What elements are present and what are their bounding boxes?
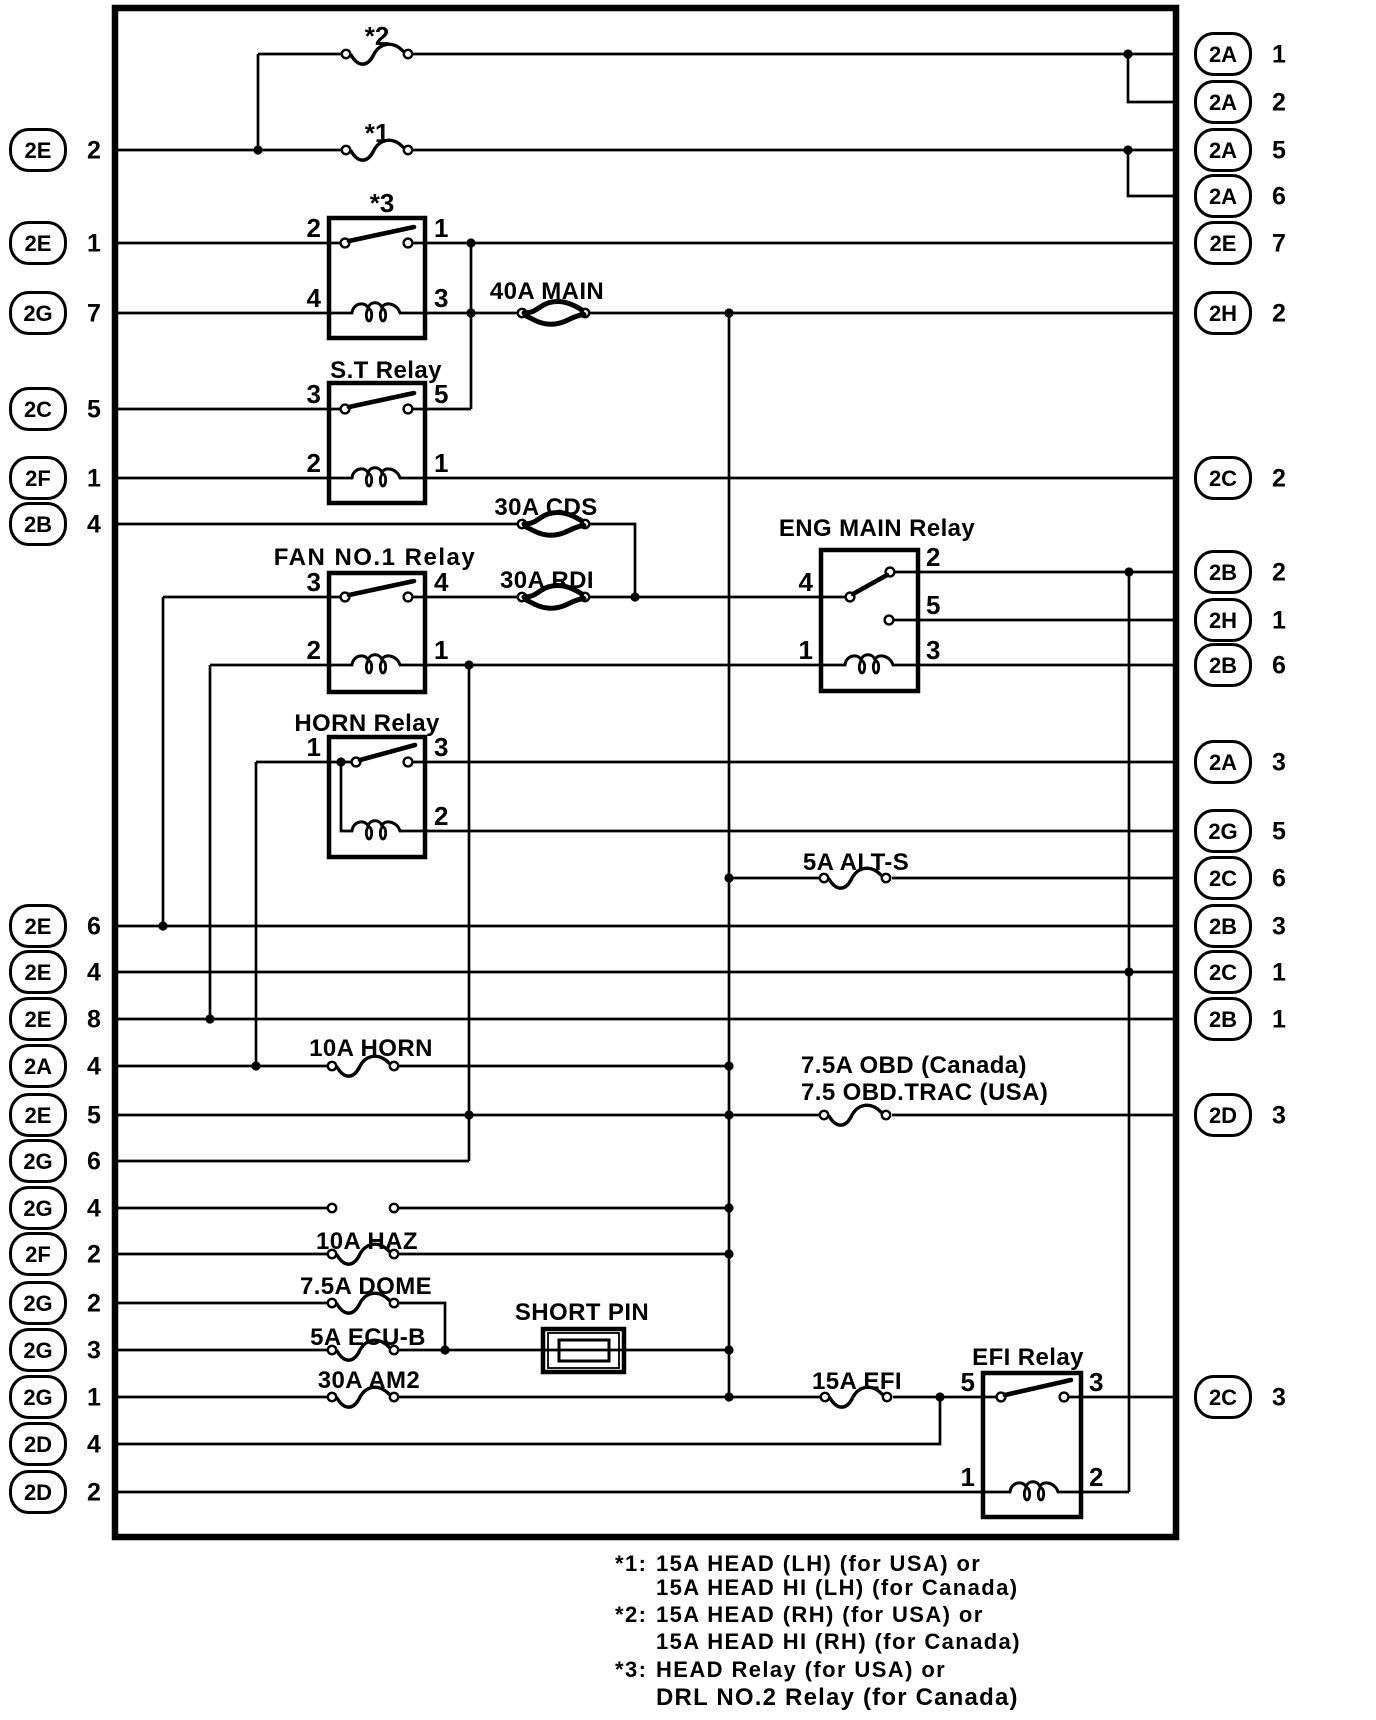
svg-text:2E: 2E <box>25 138 52 163</box>
svg-text:2E: 2E <box>25 914 52 939</box>
svg-text:1: 1 <box>87 230 101 258</box>
svg-text:3: 3 <box>1272 1384 1286 1412</box>
svg-text:2G: 2G <box>23 1338 52 1363</box>
svg-text:6: 6 <box>1272 183 1286 211</box>
svg-text:*2:: *2: <box>615 1602 647 1627</box>
svg-text:5: 5 <box>87 396 101 424</box>
svg-text:*1:: *1: <box>615 1551 647 1576</box>
svg-text:6: 6 <box>87 1148 101 1176</box>
svg-text:1: 1 <box>87 465 101 493</box>
svg-text:15A HEAD (LH) (for USA) or: 15A HEAD (LH) (for USA) or <box>656 1551 981 1576</box>
svg-text:30A CDS: 30A CDS <box>494 494 597 521</box>
svg-text:1: 1 <box>87 1384 101 1412</box>
svg-text:6: 6 <box>1272 865 1286 893</box>
svg-text:7.5A OBD (Canada): 7.5A OBD (Canada) <box>801 1052 1027 1079</box>
svg-text:3: 3 <box>307 379 321 409</box>
svg-text:2: 2 <box>87 1290 101 1318</box>
svg-text:5A ALT-S: 5A ALT-S <box>803 849 909 876</box>
svg-text:5: 5 <box>961 1367 975 1397</box>
svg-text:6: 6 <box>1272 652 1286 680</box>
svg-text:10A HORN: 10A HORN <box>309 1035 433 1062</box>
svg-text:2: 2 <box>1272 559 1286 587</box>
svg-text:10A HAZ: 10A HAZ <box>316 1228 418 1255</box>
svg-text:2C: 2C <box>1209 1385 1237 1410</box>
svg-text:1: 1 <box>1272 41 1286 69</box>
svg-text:2A: 2A <box>1209 184 1237 209</box>
svg-text:2: 2 <box>87 1479 101 1507</box>
svg-text:2F: 2F <box>25 1242 51 1267</box>
svg-text:HORN Relay: HORN Relay <box>294 710 440 737</box>
svg-text:2: 2 <box>87 137 101 165</box>
svg-text:2C: 2C <box>1209 866 1237 891</box>
svg-text:30A AM2: 30A AM2 <box>318 1367 420 1394</box>
svg-text:15A HEAD HI (RH) (for Canada): 15A HEAD HI (RH) (for Canada) <box>656 1629 1021 1654</box>
svg-text:2E: 2E <box>25 1103 52 1128</box>
svg-text:4: 4 <box>87 1195 101 1223</box>
svg-text:7: 7 <box>87 300 101 328</box>
svg-text:2G: 2G <box>1208 819 1237 844</box>
svg-text:*3:: *3: <box>615 1657 647 1682</box>
svg-text:EFI Relay: EFI Relay <box>972 1344 1084 1371</box>
svg-text:2E: 2E <box>25 231 52 256</box>
svg-text:2B: 2B <box>1209 653 1237 678</box>
svg-text:2F: 2F <box>25 466 51 491</box>
svg-text:S.T Relay: S.T Relay <box>330 357 442 384</box>
svg-text:2: 2 <box>307 213 321 243</box>
svg-text:2B: 2B <box>1209 914 1237 939</box>
svg-text:1: 1 <box>1272 607 1286 635</box>
svg-text:1: 1 <box>961 1462 975 1492</box>
svg-text:1: 1 <box>799 635 813 665</box>
svg-text:2D: 2D <box>24 1432 52 1457</box>
svg-text:2: 2 <box>87 1241 101 1269</box>
svg-text:2C: 2C <box>1209 466 1237 491</box>
svg-text:40A MAIN: 40A MAIN <box>490 278 604 305</box>
svg-text:5: 5 <box>87 1102 101 1130</box>
svg-text:15A EFI: 15A EFI <box>812 1368 902 1395</box>
svg-text:2: 2 <box>1272 89 1286 117</box>
svg-text:3: 3 <box>87 1337 101 1365</box>
svg-text:7: 7 <box>1272 230 1286 258</box>
svg-text:2H: 2H <box>1209 608 1237 633</box>
svg-text:2: 2 <box>307 635 321 665</box>
svg-text:2: 2 <box>1272 465 1286 493</box>
svg-text:3: 3 <box>1272 1102 1286 1130</box>
svg-text:5: 5 <box>1272 137 1286 165</box>
svg-text:SHORT PIN: SHORT PIN <box>515 1299 649 1326</box>
svg-text:2A: 2A <box>1209 90 1237 115</box>
svg-text:3: 3 <box>307 567 321 597</box>
svg-text:2C: 2C <box>1209 960 1237 985</box>
svg-text:3: 3 <box>1272 913 1286 941</box>
svg-text:2E: 2E <box>1210 231 1237 256</box>
svg-text:3: 3 <box>1272 749 1286 777</box>
svg-text:HEAD Relay (for USA) or: HEAD Relay (for USA) or <box>656 1657 946 1682</box>
svg-text:2D: 2D <box>24 1480 52 1505</box>
svg-text:5: 5 <box>1272 818 1286 846</box>
svg-text:4: 4 <box>87 1431 101 1459</box>
svg-text:2A: 2A <box>1209 750 1237 775</box>
svg-text:FAN NO.1 Relay: FAN NO.1 Relay <box>274 544 476 571</box>
svg-text:15A HEAD HI (LH) (for Canada): 15A HEAD HI (LH) (for Canada) <box>656 1575 1018 1600</box>
svg-text:2D: 2D <box>1209 1103 1237 1128</box>
svg-text:2G: 2G <box>23 1291 52 1316</box>
svg-text:4: 4 <box>434 567 449 597</box>
svg-text:2E: 2E <box>25 1007 52 1032</box>
svg-text:2H: 2H <box>1209 301 1237 326</box>
svg-text:2: 2 <box>307 448 321 478</box>
svg-text:15A HEAD (RH) (for USA) or: 15A HEAD (RH) (for USA) or <box>656 1602 984 1627</box>
svg-text:2: 2 <box>926 542 940 572</box>
svg-text:1: 1 <box>1272 959 1286 987</box>
svg-text:2A: 2A <box>1209 138 1237 163</box>
svg-text:7.5 OBD.TRAC (USA): 7.5 OBD.TRAC (USA) <box>801 1079 1048 1106</box>
svg-text:2: 2 <box>1089 1462 1103 1492</box>
svg-text:4: 4 <box>87 1053 101 1081</box>
svg-text:*2: *2 <box>365 21 390 51</box>
svg-text:2E: 2E <box>25 960 52 985</box>
svg-text:2C: 2C <box>24 397 52 422</box>
svg-text:2G: 2G <box>23 1196 52 1221</box>
svg-text:2B: 2B <box>1209 560 1237 585</box>
svg-text:8: 8 <box>87 1006 101 1034</box>
svg-text:DRL NO.2 Relay (for Canada): DRL NO.2 Relay (for Canada) <box>656 1684 1019 1711</box>
svg-text:2A: 2A <box>1209 42 1237 67</box>
svg-text:5A ECU-B: 5A ECU-B <box>310 1324 426 1351</box>
svg-text:1: 1 <box>434 635 448 665</box>
svg-text:7.5A DOME: 7.5A DOME <box>300 1273 432 1300</box>
svg-text:*3: *3 <box>370 188 395 218</box>
svg-text:2: 2 <box>434 801 448 831</box>
svg-text:1: 1 <box>1272 1006 1286 1034</box>
svg-text:2B: 2B <box>1209 1007 1237 1032</box>
svg-text:2B: 2B <box>24 512 52 537</box>
svg-text:4: 4 <box>799 567 814 597</box>
svg-text:6: 6 <box>87 913 101 941</box>
svg-text:2: 2 <box>1272 300 1286 328</box>
svg-text:2G: 2G <box>23 1149 52 1174</box>
svg-text:2G: 2G <box>23 1385 52 1410</box>
svg-text:4: 4 <box>307 283 322 313</box>
svg-text:3: 3 <box>926 635 940 665</box>
svg-text:30A RDI: 30A RDI <box>500 567 594 594</box>
svg-text:4: 4 <box>87 959 101 987</box>
svg-text:5: 5 <box>926 590 940 620</box>
svg-text:2G: 2G <box>23 301 52 326</box>
svg-text:1: 1 <box>434 448 448 478</box>
svg-text:1: 1 <box>434 213 448 243</box>
svg-text:4: 4 <box>87 511 101 539</box>
svg-text:*1: *1 <box>365 118 390 148</box>
svg-text:ENG MAIN Relay: ENG MAIN Relay <box>779 515 976 542</box>
svg-text:3: 3 <box>1089 1367 1103 1397</box>
svg-text:3: 3 <box>434 283 448 313</box>
svg-text:2A: 2A <box>24 1054 52 1079</box>
